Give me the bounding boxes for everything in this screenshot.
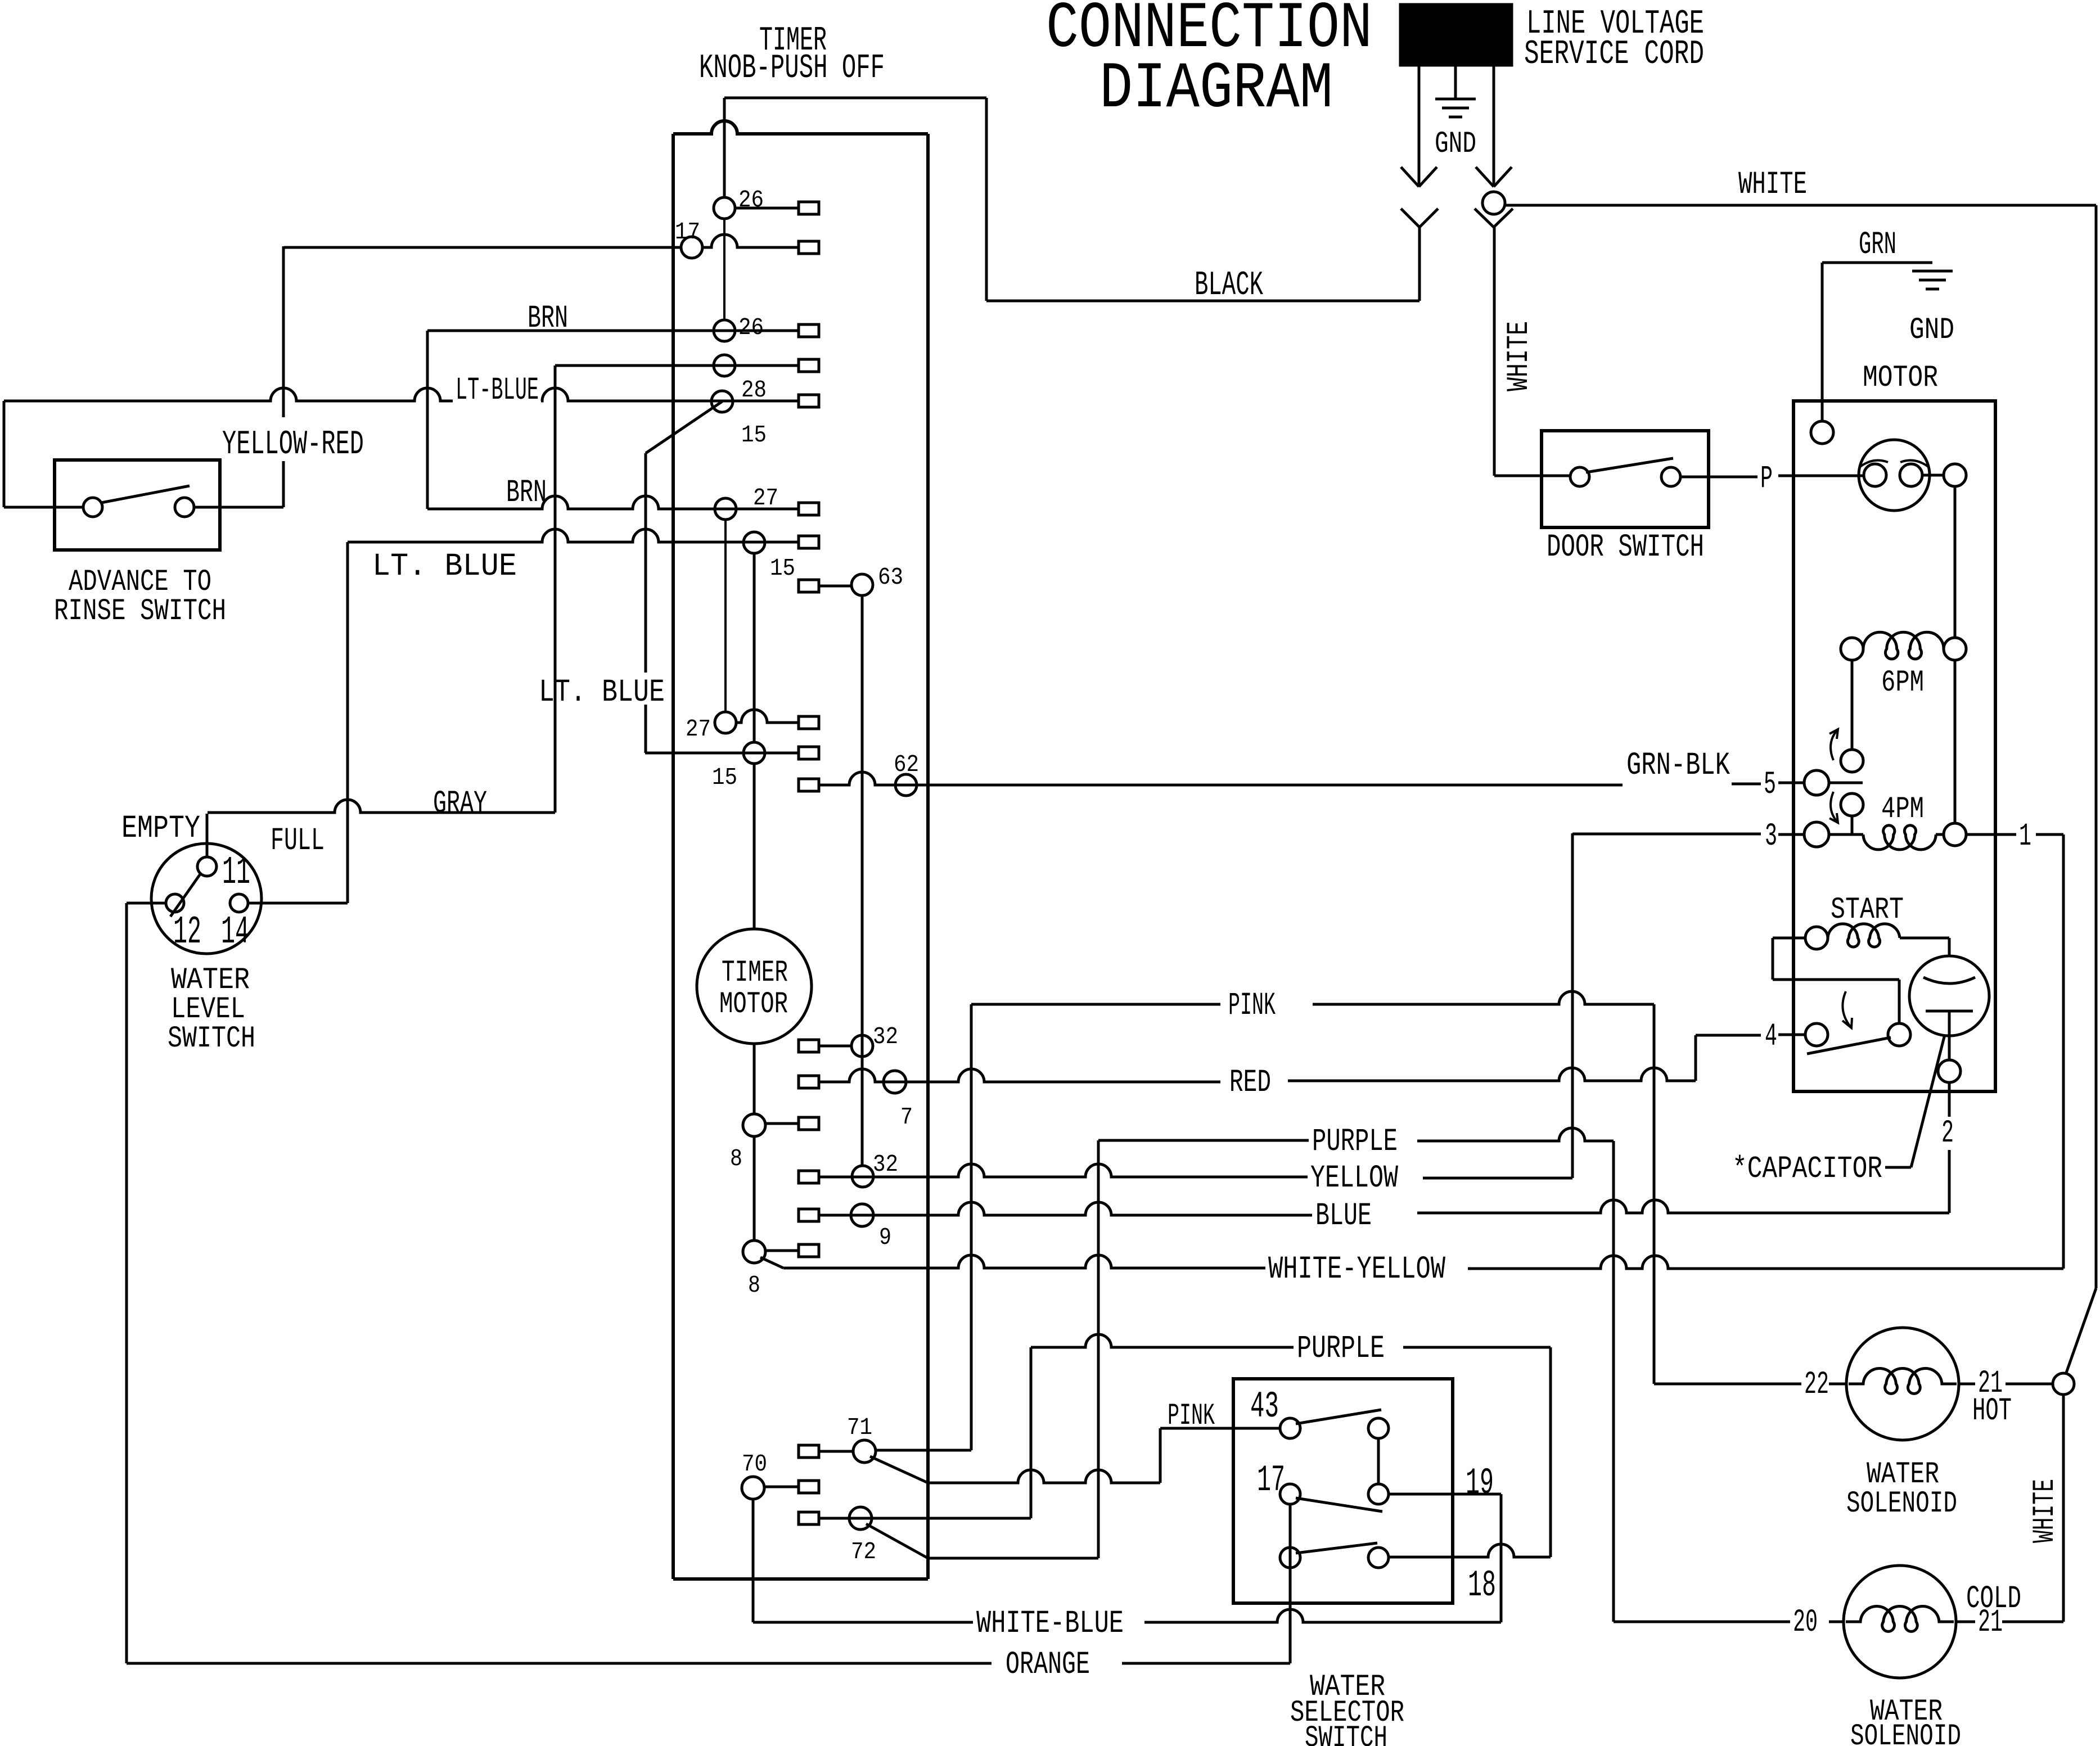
door switch box: [1542, 431, 1709, 527]
wire GRN-BLK row: [819, 772, 1623, 785]
svg-text:WHITE: WHITE: [1738, 167, 1807, 203]
terminal 7 junction: [884, 1071, 906, 1093]
svg-text:7: 7: [900, 1103, 913, 1131]
svg-text:GRAY: GRAY: [433, 786, 487, 822]
wire 15b down to 15c: [753, 553, 756, 742]
wire GRN-BLK to motor 5: [1732, 783, 1761, 786]
svg-text:32: 32: [873, 1023, 898, 1050]
svg-text:BRN: BRN: [506, 475, 547, 511]
wire RED to motor 4 terminal: [1696, 1034, 1761, 1037]
svg-text:BLACK: BLACK: [1195, 267, 1263, 305]
svg-text:32: 32: [873, 1151, 898, 1178]
wire spade to 71: [819, 1450, 854, 1453]
terminal 8b junction: [743, 1240, 765, 1263]
svg-text:TIMER: TIMER: [722, 956, 788, 990]
svg-text:BLUE: BLUE: [1315, 1198, 1372, 1234]
wire 8a to spade: [765, 1122, 799, 1125]
junction dot 21-HOT/WHITE: [2053, 1373, 2074, 1395]
spade terminal 27a: [799, 503, 819, 515]
capacitor bottom plate: [1926, 1010, 1973, 1013]
spade terminal 70: [799, 1481, 819, 1493]
motor switch eyebrow right: [1900, 461, 1929, 467]
timer box: [673, 121, 928, 134]
terminal 71 junction: [853, 1440, 876, 1463]
motor contact upper (6PM): [1841, 750, 1863, 772]
coil 4PM: [1863, 825, 1936, 850]
advance switch lever: [101, 486, 190, 503]
terminal 63 junction: [851, 574, 873, 595]
selector contact middle right: [1368, 1484, 1389, 1504]
wire WHITE-YELLOW row: [783, 1255, 1265, 1268]
svg-text:9: 9: [879, 1224, 891, 1251]
svg-text:26: 26: [738, 314, 764, 341]
motor terminal 3: [1804, 822, 1829, 847]
advance switch contact left: [83, 498, 102, 517]
wire pin down to 6PM: [1954, 486, 1957, 638]
svg-text:HOT: HOT: [1972, 1393, 2012, 1429]
selector lever 17: [1296, 1498, 1382, 1512]
wire 4PM to 1 pin: [1936, 833, 1944, 836]
svg-text:WHITE-YELLOW: WHITE-YELLOW: [1268, 1252, 1446, 1288]
spade terminal 15b: [799, 536, 819, 548]
service cord plug (filled block): [1400, 4, 1512, 65]
wire BLUE row: [819, 1202, 1312, 1215]
wire LT.BLUE long vertical: [346, 542, 349, 903]
wire PINK riser: [970, 1004, 973, 1450]
wire WHITE diagonal to junction: [2066, 1288, 2096, 1374]
svg-text:22: 22: [1804, 1367, 1829, 1403]
wire PURPLE lower right: [1403, 1346, 1551, 1349]
svg-text:21: 21: [1978, 1605, 2003, 1641]
TIMER MOTOR circle: [697, 929, 812, 1044]
svg-text:ORANGE: ORANGE: [1006, 1647, 1090, 1683]
motor 6PM coil right pin: [1944, 638, 1966, 660]
ground symbol (motor): [1912, 270, 1953, 273]
wire 27b to spade: [736, 710, 799, 723]
svg-text:15: 15: [712, 764, 737, 791]
motor switch eyebrow left: [1859, 461, 1888, 467]
wire 18 row to selector: [1390, 1544, 1551, 1557]
wire capacitor label pointer: [1885, 1166, 1911, 1169]
wire 8b diagonal: [760, 1257, 783, 1268]
wire BLUE row right: [1417, 1200, 1949, 1213]
wire 1 row: [1967, 833, 2016, 836]
spade terminal 62: [799, 779, 819, 791]
water level pin 14: [230, 894, 248, 912]
wire door switch to P: [1680, 476, 1757, 479]
motor switch inner contact left: [1864, 464, 1886, 486]
wire PURPLE upper row: [1098, 1139, 1309, 1142]
wire 72 to purple-upper riser: [928, 1557, 1098, 1560]
connector chevron (line side): [1401, 209, 1419, 227]
wire YELLOW up to motor 3: [1571, 833, 1574, 1178]
wire RED row: [819, 1069, 1220, 1082]
motor pin (run): [1944, 464, 1966, 486]
terminal 27a junction: [715, 498, 736, 520]
spade terminal 26b: [799, 324, 819, 337]
water level pin 11: [197, 857, 217, 876]
wire 15a diagonal: [646, 401, 722, 453]
svg-text:SERVICE CORD: SERVICE CORD: [1524, 35, 1704, 74]
wire 6PM pin to 1 pin: [1954, 660, 1957, 823]
terminal 62 junction: [895, 774, 917, 796]
spade terminal 7 (RED): [799, 1076, 819, 1088]
wire 15c down to timer motor: [753, 764, 756, 930]
motor start lever: [1807, 1037, 1891, 1054]
wire 20 row: [1614, 1621, 1790, 1623]
svg-text:SOLENOID: SOLENOID: [1850, 1720, 1961, 1746]
svg-text:DIAGRAM: DIAGRAM: [1099, 52, 1333, 126]
svg-text:70: 70: [742, 1450, 767, 1478]
svg-text:YELLOW: YELLOW: [1310, 1161, 1399, 1197]
svg-text:MOTOR: MOTOR: [1863, 361, 1938, 395]
coil START: [1828, 924, 1900, 947]
wire 21 COLD row: [1956, 1621, 1975, 1623]
svg-text:PURPLE: PURPLE: [1297, 1331, 1385, 1367]
arrow down (speed select): [1831, 792, 1838, 823]
capacitor top plate: [1923, 977, 1975, 983]
coil 6PM: [1863, 632, 1944, 659]
motor ground pin: [1811, 421, 1833, 444]
wire GRAY-corner row to 28: [555, 364, 799, 367]
wire pin 12 row: [127, 902, 166, 905]
svg-text:START: START: [1831, 893, 1904, 927]
wire advance left riser: [3, 401, 6, 507]
wire 15c row: [645, 752, 799, 755]
selector contact 43: [1280, 1418, 1300, 1438]
svg-text:FULL: FULL: [271, 823, 325, 859]
wire PINK row right: [1313, 991, 1654, 1004]
wire WHITE-YELLOW up to motor 1: [2062, 834, 2065, 1269]
wire PURPLE down to solenoid 20: [1612, 1141, 1615, 1622]
motor start coil left pin: [1805, 927, 1828, 949]
wire start coil to capacitor: [1900, 937, 1949, 940]
spade terminal 15c: [799, 747, 819, 759]
connector chevron with junction (neutral side): [1475, 209, 1494, 227]
wire YELLOW row: [819, 1164, 1308, 1177]
wire 19 row to selector: [1390, 1493, 1501, 1496]
wire timer knob to top right: [724, 97, 986, 100]
selector contact lower right: [1368, 1548, 1389, 1568]
terminal 28 junction: [714, 355, 735, 376]
arrow (start switch): [1842, 991, 1851, 1028]
advance switch contact right: [175, 498, 194, 517]
svg-text:17: 17: [675, 218, 700, 246]
wire GRAY riser: [554, 366, 557, 813]
svg-text:8: 8: [730, 1145, 742, 1172]
wire 71 diagonal: [870, 1456, 928, 1483]
ground symbol (service cord): [1435, 98, 1476, 101]
spade terminal 9 (BLUE): [799, 1209, 819, 1221]
wire timer motor to 8a: [753, 1044, 756, 1115]
svg-text:11: 11: [222, 851, 250, 895]
wire down to BLACK: [985, 98, 988, 301]
wire 2 up to capacitor pin: [1948, 1082, 1951, 1117]
wire RED up to motor 4: [1695, 1035, 1697, 1081]
wire EMPTY stub: [206, 814, 209, 857]
svg-text:LT-BLUE: LT-BLUE: [456, 373, 539, 409]
door switch contact left: [1570, 467, 1589, 486]
svg-text:SOLENOID: SOLENOID: [1846, 1487, 1957, 1521]
svg-text:P: P: [1760, 461, 1773, 497]
wire ORANGE up to selector 17: [1289, 1504, 1292, 1663]
svg-text:*CAPACITOR: *CAPACITOR: [1732, 1151, 1882, 1186]
svg-text:WHITE: WHITE: [2028, 1479, 2062, 1543]
wire FULL row to pin 14: [248, 902, 348, 905]
spade terminal 63: [799, 580, 819, 592]
wire start coil U detour: [1773, 937, 1805, 940]
svg-text:GND: GND: [1435, 127, 1476, 161]
svg-text:4PM: 4PM: [1881, 792, 1924, 827]
wire 8b to spade: [765, 1249, 799, 1252]
svg-text:5: 5: [1764, 767, 1776, 803]
wire service cord neutral pin: [1493, 65, 1495, 186]
svg-text:17: 17: [1257, 1459, 1285, 1501]
svg-text:72: 72: [851, 1538, 876, 1565]
water level wiper 12-11: [170, 873, 201, 917]
wire BLACK: [986, 300, 1419, 303]
motor box: [1793, 401, 1995, 1091]
water level switch circle: [151, 843, 262, 954]
door switch lever: [1586, 458, 1673, 472]
wire WHITE (top): [1505, 204, 2096, 207]
svg-text:14: 14: [221, 910, 249, 955]
terminal 72 junction: [849, 1507, 872, 1530]
terminal 15b junction: [743, 532, 765, 553]
wire PINK row: [971, 1003, 1220, 1006]
spade terminal 28: [799, 359, 819, 372]
motor 6PM coil left pin: [1841, 638, 1863, 660]
wire YELLOW row right: [1423, 1177, 1572, 1180]
wire WHITE-BLUE row: [753, 1621, 973, 1624]
water solenoid COLD circle: [1844, 1565, 1956, 1678]
wire service cord line pin: [1418, 65, 1421, 186]
wire spade to 32a: [819, 1045, 851, 1048]
svg-text:2: 2: [1941, 1116, 1954, 1152]
svg-text:4: 4: [1765, 1019, 1777, 1055]
wire PINK to 43: [1160, 1427, 1281, 1430]
water selector switch box: [1233, 1379, 1453, 1603]
terminal 26 (top) junction: [714, 197, 735, 219]
wire spade-72 row to purple riser: [819, 1517, 1031, 1520]
selector lever 43: [1296, 1410, 1381, 1424]
wire 70 to spade: [764, 1486, 799, 1488]
wire 71 to selector 43: [928, 1470, 1160, 1483]
wire spade to 63: [819, 585, 851, 588]
svg-text:RINSE SWITCH: RINSE SWITCH: [54, 594, 226, 629]
wire 8a down to 8b: [753, 1136, 756, 1240]
wire 70 down: [752, 1499, 755, 1622]
selector lever lower: [1296, 1543, 1377, 1553]
selector contact upper right: [1368, 1418, 1389, 1438]
wire LT.BLUE corner row to 15b: [348, 529, 799, 542]
selector link right contacts: [1377, 1438, 1380, 1484]
svg-text:WHITE: WHITE: [1502, 321, 1536, 391]
wire LT.BLUE vertical (labeled): [645, 453, 647, 673]
spade terminal 8a: [799, 1117, 819, 1130]
svg-text:KNOB-PUSH OFF: KNOB-PUSH OFF: [699, 49, 885, 88]
terminal 15c junction: [743, 742, 765, 764]
wire PURPLE upper right: [1417, 1128, 1614, 1141]
arrow up (speed select): [1831, 729, 1838, 760]
wire WHITE-BLUE up to 19: [1500, 1494, 1503, 1622]
svg-text:12: 12: [173, 910, 201, 955]
wire RED row right: [1288, 1068, 1696, 1081]
svg-text:PINK: PINK: [1228, 988, 1276, 1024]
water level pin 12: [166, 894, 184, 912]
wire 43 riser: [1159, 1428, 1162, 1483]
wire 21 HOT row: [1959, 1383, 1975, 1386]
wire P into motor: [1778, 475, 1864, 477]
terminal 9 junction: [851, 1204, 873, 1226]
terminal 8a junction: [743, 1114, 765, 1136]
svg-text:20: 20: [1793, 1605, 1818, 1641]
svg-text:62: 62: [894, 751, 919, 778]
motor terminal 5: [1804, 770, 1829, 795]
svg-text:WHITE-BLUE: WHITE-BLUE: [976, 1606, 1124, 1642]
wire advance switch left: [4, 506, 83, 509]
wire switch to pin: [1922, 474, 1944, 477]
svg-text:3: 3: [1765, 819, 1777, 855]
wire capacitor to bottom pin: [1948, 1011, 1951, 1061]
svg-text:27: 27: [686, 715, 711, 743]
spade terminal 72: [799, 1512, 819, 1524]
wire 3 row to coil: [1829, 833, 1863, 836]
svg-text:26: 26: [738, 186, 764, 214]
svg-text:DOOR SWITCH: DOOR SWITCH: [1547, 530, 1704, 566]
spade terminal 27b: [799, 716, 819, 729]
svg-text:MOTOR: MOTOR: [719, 987, 788, 1022]
wire advance switch right: [194, 506, 283, 509]
wire YELLOW to motor 3 terminal: [1572, 833, 1761, 836]
svg-text:63: 63: [878, 563, 903, 591]
motor start wiper contact: [1888, 1023, 1910, 1046]
wire into door switch: [1494, 475, 1570, 477]
wire WHITE-YELLOW row right: [1468, 1256, 2063, 1269]
wire service cord ground pin: [1454, 65, 1457, 98]
coil solenoid HOT: [1849, 1369, 1957, 1394]
water solenoid HOT circle: [1846, 1328, 1959, 1440]
wire BRN vertical: [426, 331, 429, 509]
wire PURPLE upper riser: [1097, 1140, 1100, 1558]
wire WHITE down to door switch: [1493, 227, 1496, 476]
timer knob shaft: [723, 98, 726, 198]
selector contact lower left: [1280, 1548, 1300, 1568]
wire GRN: [1821, 263, 1824, 421]
svg-text:LT. BLUE: LT. BLUE: [372, 549, 517, 585]
wire GRAY row: [208, 800, 555, 813]
svg-text:PURPLE: PURPLE: [1312, 1124, 1398, 1160]
spade terminal 32a: [799, 1040, 819, 1052]
wire PURPLE lower down: [1549, 1347, 1552, 1557]
wire BRN row to 26b: [427, 330, 799, 332]
svg-text:LT. BLUE: LT. BLUE: [539, 675, 665, 711]
svg-text:RED: RED: [1229, 1065, 1271, 1101]
wire ORANGE right: [1122, 1662, 1290, 1665]
spade terminal 71: [799, 1445, 819, 1458]
svg-text:71: 71: [847, 1414, 872, 1441]
motor contact lower (4PM): [1841, 793, 1863, 816]
spade terminal 15a: [799, 395, 819, 407]
motor pin 1: [1944, 823, 1966, 846]
motor switch inner contact right: [1900, 464, 1922, 486]
svg-text:6PM: 6PM: [1881, 666, 1924, 700]
wire link 27a-27b: [724, 520, 727, 712]
terminal 32a junction: [851, 1035, 873, 1057]
terminal 26 (second) junction: [714, 320, 735, 341]
svg-text:18: 18: [1468, 1564, 1496, 1607]
spade terminal 17: [799, 241, 819, 254]
svg-text:19: 19: [1466, 1462, 1494, 1504]
svg-text:BRN: BRN: [528, 301, 568, 337]
wire BRN lower row to 27a: [427, 496, 799, 509]
junction circle neutral connector: [1482, 192, 1505, 214]
wire PURPLE lower row: [1031, 1334, 1294, 1347]
svg-text:SWITCH: SWITCH: [1305, 1721, 1387, 1746]
svg-text:SWITCH: SWITCH: [168, 1022, 255, 1056]
spade terminal 32b (YELLOW): [799, 1171, 819, 1183]
wire BLACK up to connector: [1418, 227, 1421, 301]
door switch contact right: [1661, 467, 1680, 486]
wire water level to orange riser: [125, 903, 128, 1663]
wire PINK down to solenoid 22: [1653, 1004, 1656, 1384]
selector contact 17: [1280, 1484, 1300, 1504]
motor start switch circle: [1859, 440, 1930, 511]
wire 26a to spade: [735, 207, 799, 210]
wire 72 diagonal: [866, 1524, 928, 1558]
svg-text:1: 1: [2019, 819, 2031, 855]
wire WHITE junction down to COLD 21: [2062, 1395, 2065, 1622]
svg-text:PINK: PINK: [1168, 1399, 1215, 1433]
wire lower contact to 3 row: [1851, 816, 1854, 834]
svg-text:15: 15: [741, 421, 767, 449]
svg-text:8: 8: [748, 1271, 760, 1299]
wire WHITE right vertical: [2095, 205, 2098, 1288]
svg-text:GRN: GRN: [1859, 227, 1896, 263]
svg-text:43: 43: [1250, 1386, 1279, 1428]
advance to rinse switch box: [55, 460, 220, 550]
svg-text:YELLOW-RED: YELLOW-RED: [222, 426, 364, 464]
wire 5 stub right: [1829, 782, 1863, 784]
wire WHITE-BLUE right: [1144, 1609, 1501, 1622]
svg-text:15: 15: [770, 554, 795, 582]
svg-text:EMPTY: EMPTY: [121, 811, 200, 847]
wire 63 vertical down: [861, 595, 864, 1166]
terminal 27b junction: [715, 712, 736, 733]
wire ORANGE row: [127, 1662, 992, 1665]
svg-text:GRN-BLK: GRN-BLK: [1626, 748, 1731, 784]
capacitor circle: [1909, 956, 1989, 1036]
spade terminal 8b: [799, 1244, 819, 1257]
wire 17 to spade: [702, 234, 799, 247]
terminal 17 junction: [681, 237, 702, 258]
wire yellow-red riser: [282, 461, 285, 507]
coil solenoid COLD: [1846, 1607, 1954, 1632]
wire 6PM left down: [1851, 660, 1854, 750]
wire 22 row: [1654, 1383, 1801, 1386]
wire purple-lower riser: [1030, 1347, 1033, 1518]
wire link 26a-26b: [723, 219, 725, 320]
terminal 32b junction: [852, 1166, 873, 1187]
terminal 15a junction: [711, 391, 733, 412]
terminal 70 junction: [742, 1477, 764, 1499]
motor capacitor pin: [1938, 1060, 1961, 1082]
wire BLUE up to capacitor 2: [1948, 1150, 1951, 1213]
motor terminal 4: [1805, 1023, 1828, 1046]
wire LT-BLUE row: [4, 388, 453, 401]
svg-text:GND: GND: [1909, 313, 1954, 348]
wire 71 to pink riser: [875, 1449, 971, 1452]
